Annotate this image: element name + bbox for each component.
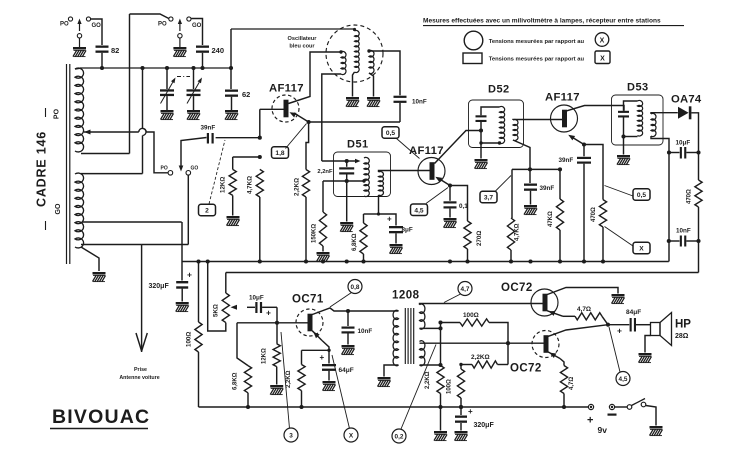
- svg-text:+: +: [187, 270, 192, 280]
- svg-text:10nF: 10nF: [358, 328, 373, 335]
- svg-text:4,7Ω: 4,7Ω: [569, 377, 575, 390]
- svg-text:+: +: [266, 308, 271, 318]
- svg-text:X: X: [600, 56, 605, 63]
- svg-text:Tensions mesurées par rapport: Tensions mesurées par rapport au: [489, 57, 585, 63]
- svg-text:240: 240: [212, 46, 225, 55]
- svg-text:10nF: 10nF: [412, 99, 427, 106]
- svg-text:0,5: 0,5: [386, 130, 395, 137]
- svg-text:4,7KΩ: 4,7KΩ: [247, 176, 254, 194]
- svg-text:3,7: 3,7: [484, 195, 493, 202]
- svg-text:Prise: Prise: [134, 367, 147, 373]
- svg-text:320μF: 320μF: [149, 283, 170, 290]
- svg-text:+: +: [468, 407, 473, 416]
- svg-text:+: +: [320, 353, 325, 362]
- svg-text:12KΩ: 12KΩ: [262, 348, 268, 364]
- svg-text:OC72: OC72: [501, 282, 533, 294]
- svg-text:150KΩ: 150KΩ: [312, 224, 318, 243]
- svg-text:BIVOUAC: BIVOUAC: [52, 406, 150, 428]
- svg-text:9v: 9v: [598, 425, 608, 435]
- svg-text:47KΩ: 47KΩ: [548, 211, 554, 227]
- svg-text:39nF: 39nF: [540, 185, 555, 192]
- svg-text:100Ω: 100Ω: [463, 312, 479, 319]
- svg-text:HP: HP: [675, 319, 691, 331]
- svg-text:8μF: 8μF: [402, 227, 413, 234]
- svg-text:D51: D51: [347, 139, 369, 151]
- svg-text:28Ω: 28Ω: [675, 333, 689, 340]
- svg-text:PO: PO: [54, 108, 61, 119]
- svg-text:PO: PO: [60, 22, 69, 28]
- svg-text:2,2nF: 2,2nF: [317, 169, 333, 175]
- svg-text:12KΩ: 12KΩ: [220, 177, 227, 193]
- svg-text:4,7KΩ: 4,7KΩ: [515, 223, 521, 241]
- svg-text:X: X: [600, 37, 605, 44]
- svg-text:0,5: 0,5: [637, 192, 646, 199]
- svg-text:84μF: 84μF: [626, 309, 641, 316]
- svg-text:82: 82: [111, 46, 119, 55]
- svg-text:D53: D53: [627, 82, 649, 94]
- svg-text:10μF: 10μF: [249, 295, 264, 302]
- svg-text:X: X: [349, 432, 354, 439]
- svg-text:X: X: [639, 246, 644, 253]
- svg-text:Tensions mesurées par rapport: Tensions mesurées par rapport au: [489, 39, 585, 45]
- svg-text:3: 3: [289, 432, 293, 439]
- svg-text:320μF: 320μF: [474, 422, 495, 429]
- svg-text:CADRE 146: CADRE 146: [35, 131, 49, 207]
- svg-text:2,2KΩ: 2,2KΩ: [294, 178, 301, 196]
- svg-text:270Ω: 270Ω: [476, 231, 483, 246]
- svg-text:10nF: 10nF: [676, 228, 691, 235]
- svg-text:1208: 1208: [392, 290, 420, 302]
- svg-text:bleu cour: bleu cour: [289, 44, 315, 50]
- svg-text:PO: PO: [161, 166, 168, 172]
- svg-text:AF117: AF117: [269, 83, 304, 95]
- svg-text:+: +: [617, 326, 622, 336]
- svg-text:+: +: [387, 215, 392, 224]
- svg-text:64μF: 64μF: [339, 367, 354, 374]
- svg-text:Mesures effectuées avec un mil: Mesures effectuées avec un milivoltmètre…: [423, 17, 661, 24]
- svg-text:GO: GO: [191, 166, 199, 172]
- svg-text:D52: D52: [488, 84, 510, 96]
- svg-text:4,7Ω: 4,7Ω: [577, 306, 591, 313]
- svg-text:100Ω: 100Ω: [186, 332, 193, 347]
- svg-text:4,5: 4,5: [414, 207, 423, 214]
- svg-text:39nF: 39nF: [201, 125, 216, 132]
- svg-text:4,7: 4,7: [461, 286, 470, 293]
- svg-text:10μF: 10μF: [676, 140, 691, 147]
- svg-text:6,8KΩ: 6,8KΩ: [352, 233, 358, 251]
- svg-text:0,8: 0,8: [351, 284, 360, 291]
- svg-text:6,8KΩ: 6,8KΩ: [233, 372, 239, 390]
- svg-text:0,2: 0,2: [395, 433, 404, 440]
- svg-text:GO: GO: [192, 23, 202, 29]
- svg-text:2: 2: [205, 208, 209, 215]
- svg-text:+: +: [587, 415, 593, 427]
- svg-text:62: 62: [242, 90, 250, 99]
- svg-text:Oscillateur: Oscillateur: [288, 36, 318, 42]
- svg-text:OC71: OC71: [292, 294, 324, 306]
- svg-text:4,5: 4,5: [619, 376, 628, 383]
- svg-text:Antenne voiture: Antenne voiture: [119, 375, 159, 381]
- svg-text:5KΩ: 5KΩ: [213, 304, 220, 317]
- svg-text:GO: GO: [92, 23, 102, 29]
- svg-text:GO: GO: [55, 203, 62, 214]
- svg-text:OA74: OA74: [671, 94, 702, 106]
- svg-text:2,2KΩ: 2,2KΩ: [471, 354, 490, 361]
- svg-text:2,2KΩ: 2,2KΩ: [425, 371, 431, 389]
- svg-text:470Ω: 470Ω: [687, 189, 693, 204]
- svg-text:AF117: AF117: [545, 92, 580, 104]
- svg-text:OC72: OC72: [510, 363, 542, 375]
- svg-text:470Ω: 470Ω: [591, 207, 597, 222]
- svg-text:PO: PO: [158, 22, 167, 28]
- svg-text:39nF: 39nF: [559, 157, 574, 164]
- svg-text:2,2KΩ: 2,2KΩ: [286, 370, 292, 388]
- svg-text:100Ω: 100Ω: [447, 379, 453, 394]
- svg-text:1,8: 1,8: [275, 150, 284, 157]
- svg-text:AF117: AF117: [409, 145, 444, 157]
